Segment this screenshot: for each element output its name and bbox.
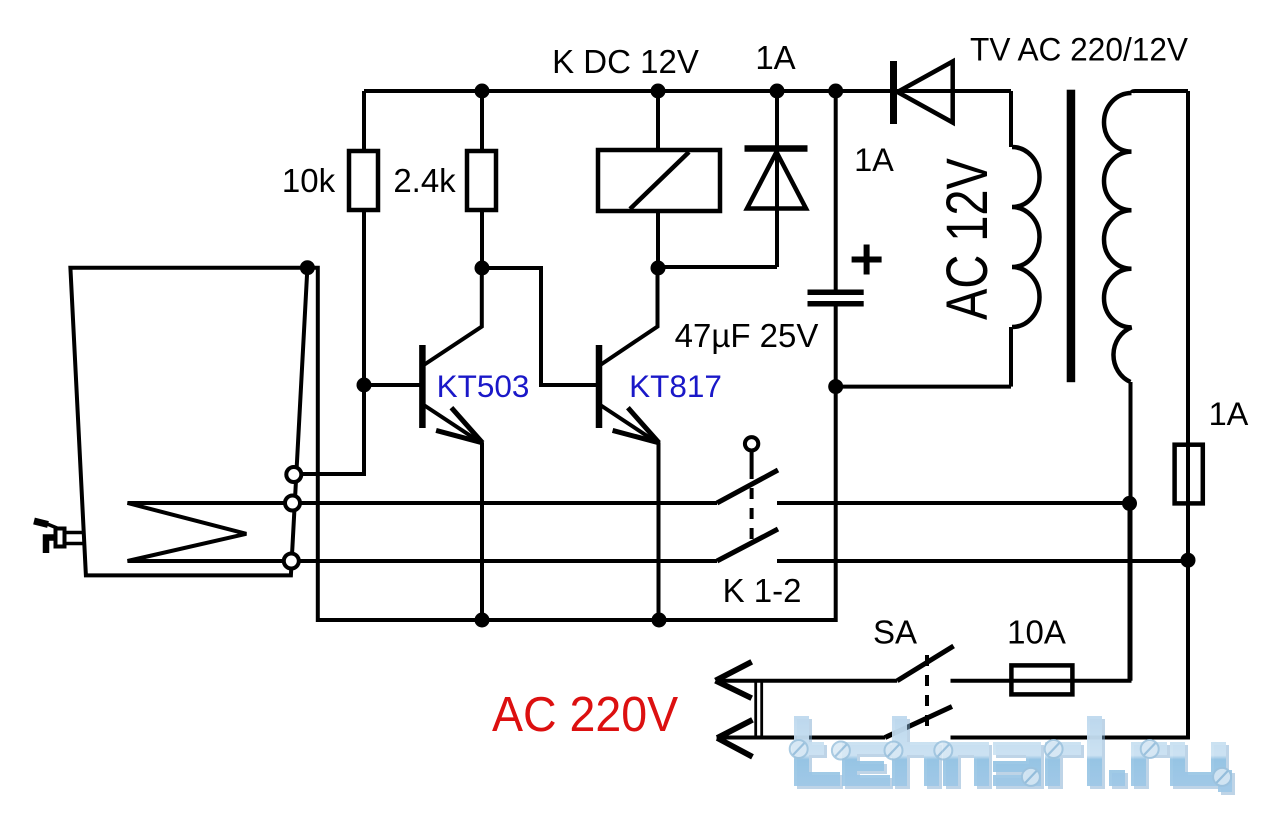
wire capacitor bottom lead down to contacts rail xyxy=(307,268,835,620)
svg-text:1A: 1A xyxy=(755,39,795,76)
resistor R2 2.4k xyxy=(467,151,496,210)
junction node +12V rail at R2 xyxy=(475,84,490,99)
diode VD2 rectifier triangle xyxy=(898,62,953,123)
junction node VT2 collector / relay coil xyxy=(651,261,666,276)
wire KT817 emitter xyxy=(601,406,659,621)
transformer core xyxy=(1067,90,1076,383)
junction node heater to mains return xyxy=(1181,553,1196,568)
transistor VT2 emitter arrow xyxy=(613,408,659,443)
wire relay bottom lead xyxy=(656,211,660,268)
watermark tehnari.ru xyxy=(795,719,1235,795)
wire 10k top lead xyxy=(362,91,366,151)
capacitor C1 plus sign xyxy=(852,245,882,275)
transistor VT1 emitter arrow xyxy=(436,408,482,443)
wire heater bottom line right of contact K2 xyxy=(777,559,1188,563)
svg-text:AC 220V: AC 220V xyxy=(492,688,678,743)
wire top rail K DC 12V xyxy=(364,89,1011,93)
wire diode VD1 lead xyxy=(775,91,779,267)
faucet handle xyxy=(34,521,48,525)
wire capacitor node to primary bottom xyxy=(836,385,1011,389)
plug XP upper arrow xyxy=(716,662,752,698)
wire KT503 base xyxy=(364,383,420,387)
wire heater mid line right of contact K1 xyxy=(777,501,1130,505)
svg-text:10A: 10A xyxy=(1007,614,1066,651)
plug XP double bars xyxy=(756,681,762,739)
transistor VT1 KT503 base bar xyxy=(419,345,426,428)
svg-text:10k: 10k xyxy=(282,162,336,199)
junction node +12V rail at VD1 xyxy=(770,84,785,99)
svg-text:1A: 1A xyxy=(854,142,894,178)
wire secondary top to right rail xyxy=(1132,91,1189,93)
relay contact K2 arm xyxy=(717,529,778,561)
transformer secondary winding xyxy=(1104,93,1132,382)
junction node VT1 emitter on ground rail xyxy=(475,613,490,628)
junction node +12V rail at C1 xyxy=(828,84,843,99)
junction node C1 negative / primary xyxy=(828,379,843,394)
diode VD1 flyback triangle xyxy=(747,152,806,209)
relay contact K1 arm xyxy=(717,470,778,503)
switch SA dashed link xyxy=(925,655,929,733)
transistor VT2 KT817 base bar xyxy=(596,345,603,428)
watermark screw heads xyxy=(790,740,1231,786)
capacitor C1 plates xyxy=(808,292,864,303)
junction node tank body xyxy=(300,260,315,275)
switch SA upper arm xyxy=(897,646,953,681)
faucet pipe xyxy=(65,533,85,544)
junction node VT2 emitter on ground rail xyxy=(652,613,667,628)
wire 2.4k bottom lead xyxy=(480,210,484,268)
wire KT817 collector xyxy=(601,268,658,365)
wire capacitor top lead xyxy=(834,91,838,290)
resistor R1 10k xyxy=(349,151,378,210)
wire relay top lead xyxy=(656,91,660,151)
diode VD1 flyback cathode bar xyxy=(745,145,808,152)
svg-text:47µF 25V: 47µF 25V xyxy=(675,317,819,354)
plug XP lower arrow xyxy=(717,720,752,757)
svg-text:KT817: KT817 xyxy=(629,368,722,404)
switch SA lower arm xyxy=(885,707,952,738)
diode VD2 rectifier cathode bar xyxy=(890,61,897,124)
relay contact link dashed xyxy=(750,468,754,545)
junction node VT1 collector xyxy=(475,261,490,276)
wire secondary bottom stem xyxy=(1129,382,1133,681)
wire 2.4k top lead xyxy=(480,91,484,151)
junction node VT1 base xyxy=(357,378,372,393)
wire right rail through fuse 1A down and bottom return xyxy=(951,91,1189,738)
svg-text:SA: SA xyxy=(873,614,917,651)
wire heater mid line left of contact K1 xyxy=(300,501,717,505)
tank terminal heater top xyxy=(285,496,300,511)
svg-text:KT503: KT503 xyxy=(437,368,530,404)
faucet valve body xyxy=(56,529,65,547)
heater element xyxy=(128,503,286,561)
relay contact link solid stem xyxy=(750,451,754,469)
faucet spout xyxy=(46,538,56,554)
svg-text:TV AC 220/12V: TV AC 220/12V xyxy=(970,32,1189,68)
svg-text:K DC 12V: K DC 12V xyxy=(552,43,699,80)
wire heater bottom line left of contact K2 xyxy=(298,559,717,563)
transformer primary winding AC 12V xyxy=(1012,147,1040,327)
svg-text:2.4k: 2.4k xyxy=(393,162,456,199)
fuse FU2 10A xyxy=(1011,665,1072,694)
fuse FU1 1A xyxy=(1175,445,1203,504)
wire node jog 2.4k to KT817 base xyxy=(482,268,597,385)
junction node +12V rail at relay xyxy=(651,84,666,99)
tank terminal sensor xyxy=(286,467,301,482)
tank water heater body xyxy=(70,268,307,576)
svg-text:AC 12V: AC 12V xyxy=(935,158,1000,320)
svg-text:K 1-2: K 1-2 xyxy=(723,572,802,609)
tank terminal heater bottom xyxy=(284,554,299,569)
wire KT503 collector xyxy=(425,268,482,365)
wire mains lower: plug to SA contact xyxy=(717,736,885,740)
wire relay bottom to diode VD1 xyxy=(658,265,777,269)
wire transformer primary stems xyxy=(1009,91,1013,147)
relay contact K1 pivot xyxy=(745,437,758,450)
svg-text:1A: 1A xyxy=(1209,396,1249,432)
relay coil K xyxy=(598,150,720,211)
junction node heater to FU2 xyxy=(1122,496,1137,511)
wire mains upper: plug to SA to fuse 10A to transformer xyxy=(717,679,898,683)
wire 10k bottom lead to base node and tank sensor terminal xyxy=(299,210,364,474)
wire KT503 emitter xyxy=(425,406,483,621)
